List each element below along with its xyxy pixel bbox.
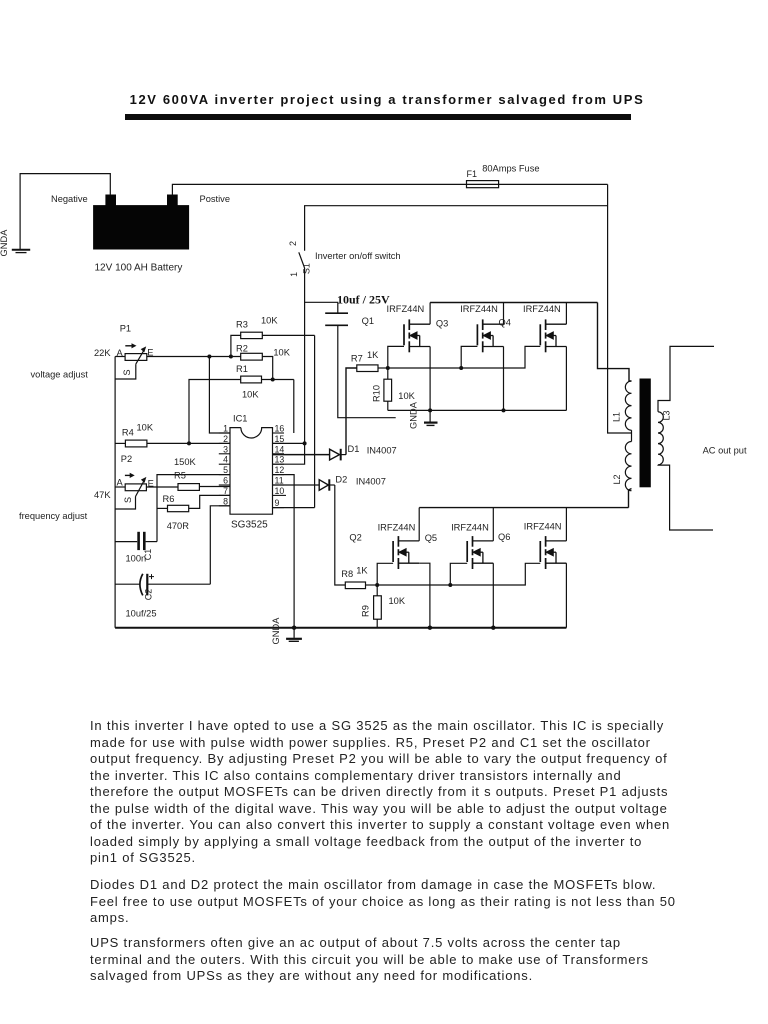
- wire IC pin5 branch: [157, 475, 230, 542]
- svg-text:R5: R5: [174, 471, 186, 481]
- resistor R1: [189, 376, 294, 443]
- battery positive terminal: [167, 195, 178, 206]
- resistor R6: [157, 495, 230, 511]
- wire L3 top to AC output: [658, 346, 714, 411]
- svg-text:R1: R1: [236, 364, 248, 374]
- svg-text:13: 13: [275, 455, 285, 465]
- svg-text:10K: 10K: [389, 596, 406, 606]
- wire C2 to IC pin8: [210, 506, 230, 584]
- transistor Q3: [477, 319, 503, 352]
- svg-text:S: S: [123, 497, 133, 503]
- svg-text:L2: L2: [612, 474, 622, 484]
- svg-text:8: 8: [223, 496, 228, 506]
- wire D1 to R7: [346, 368, 357, 455]
- wire P2 A to left rail: [115, 486, 125, 488]
- svg-text:SG3525: SG3525: [231, 520, 268, 531]
- title underline bar: [125, 114, 631, 120]
- wire Q3 drain: [503, 303, 505, 325]
- title: [3, 92, 768, 107]
- resistor R5: [178, 484, 230, 491]
- svg-text:Q5: Q5: [425, 533, 437, 543]
- svg-text:L1: L1: [612, 412, 622, 422]
- resistor R7: [357, 365, 388, 372]
- svg-text:Q2: Q2: [349, 533, 361, 543]
- wire rail to L2 bottom: [629, 489, 632, 508]
- svg-text:11: 11: [275, 476, 284, 486]
- wire bottom drain rail: [419, 507, 628, 509]
- ground GNDA IC: [286, 628, 302, 642]
- svg-text:Q3: Q3: [436, 319, 448, 329]
- svg-text:10K: 10K: [398, 391, 415, 401]
- svg-text:Q1: Q1: [362, 316, 374, 326]
- svg-text:10uf/25: 10uf/25: [126, 609, 157, 619]
- wire L3 bottom to AC output: [658, 465, 713, 530]
- svg-text:P1: P1: [120, 324, 131, 334]
- preset P2 wiper arrow: [136, 477, 147, 497]
- resistor R10: [384, 368, 392, 410]
- left rail: [114, 357, 116, 628]
- svg-text:47K: 47K: [94, 490, 111, 500]
- svg-text:12V 100 AH Battery: 12V 100 AH Battery: [95, 263, 183, 274]
- svg-text:5: 5: [223, 465, 228, 475]
- svg-text:12: 12: [275, 465, 285, 475]
- wire IC pin15 to supply node: [273, 442, 305, 444]
- svg-text:Inverter on/off switch: Inverter on/off switch: [315, 251, 401, 261]
- svg-text:IRFZ44N: IRFZ44N: [460, 304, 498, 314]
- svg-text:Q4: Q4: [499, 318, 511, 328]
- svg-text:F1: F1: [467, 169, 478, 179]
- battery BT1 body: [93, 205, 189, 249]
- svg-text:R7: R7: [351, 354, 363, 364]
- transistor Q1: [404, 319, 430, 352]
- fuse F1: [467, 181, 499, 188]
- arrow glyph P2: [125, 473, 135, 478]
- resistor R8: [345, 582, 377, 589]
- svg-text:IRFZ44N: IRFZ44N: [523, 304, 561, 314]
- svg-text:80Amps Fuse: 80Amps Fuse: [482, 164, 539, 174]
- wire Q5 source: [492, 563, 494, 628]
- wire Q4 source: [565, 347, 567, 411]
- wire P1 A to left rail: [115, 356, 125, 358]
- svg-text:1K: 1K: [367, 350, 379, 360]
- wire Q1 source: [429, 347, 431, 411]
- wire D2 to R8: [335, 485, 346, 585]
- svg-text:2: 2: [223, 434, 228, 444]
- wire Q2 drain: [418, 508, 420, 541]
- svg-text:R10: R10: [372, 385, 382, 402]
- svg-text:10K: 10K: [273, 348, 290, 358]
- capacitor C2 10uf/25: [115, 574, 210, 596]
- wire R1 to IC pin16: [293, 380, 295, 434]
- transistor Q5: [467, 536, 493, 569]
- preset P1 wiper arrow: [136, 346, 146, 364]
- svg-text:Negative: Negative: [51, 194, 88, 204]
- svg-text:S1: S1: [302, 263, 312, 274]
- battery negative terminal: [105, 195, 116, 206]
- wire Q3 source: [503, 347, 505, 411]
- capacitor C3 10uf/25V plates: [325, 313, 348, 325]
- paragraph 2: [90, 877, 740, 927]
- wire V+ vertical to transformer center tap: [608, 184, 632, 433]
- IC pin underlines right: [273, 433, 287, 508]
- wire node to IC pin1: [209, 357, 230, 434]
- svg-text:R6: R6: [163, 494, 175, 504]
- wire rail to L1 top: [598, 303, 632, 382]
- wire fuse to V+ vertical: [499, 183, 608, 185]
- resistor R9: [374, 585, 382, 628]
- resistor R4: [115, 440, 230, 447]
- wire IC pin9 to R3 branch: [273, 507, 315, 509]
- svg-text:IRFZ44N: IRFZ44N: [451, 523, 489, 533]
- svg-text:frequency adjust: frequency adjust: [19, 511, 88, 521]
- IC pin numbers left 1-8: [223, 424, 228, 507]
- wire IC pin14 to D1: [273, 454, 330, 456]
- svg-text:S: S: [122, 369, 132, 375]
- svg-text:22K: 22K: [94, 348, 111, 358]
- svg-text:14: 14: [275, 444, 285, 454]
- preset P1 body: [125, 354, 147, 361]
- transistor Q4: [540, 319, 566, 352]
- svg-text:R9: R9: [361, 605, 371, 617]
- wire Q5 gate lead: [450, 563, 467, 585]
- ground GNDA mosfets: [424, 410, 438, 425]
- wire Q6 source: [565, 563, 567, 628]
- svg-text:3: 3: [223, 444, 228, 454]
- svg-text:voltage adjust: voltage adjust: [31, 370, 89, 380]
- wire top source rail: [388, 409, 567, 411]
- transformer primary L2: [625, 441, 631, 490]
- svg-text:IRFZ44N: IRFZ44N: [387, 304, 425, 314]
- svg-text:150K: 150K: [174, 457, 197, 467]
- wire IC pin13 to supply node: [273, 443, 305, 464]
- transformer core: [640, 379, 651, 488]
- wire switch node to capacitor C3: [305, 302, 338, 313]
- wire battery negative to ground: [20, 174, 110, 250]
- transistor Q6: [540, 536, 566, 569]
- svg-text:1K: 1K: [356, 566, 368, 576]
- svg-text:Q6: Q6: [498, 532, 510, 542]
- svg-text:470R: 470R: [167, 521, 190, 531]
- wire Q1 gate lead: [388, 346, 404, 368]
- wire Q3 gate lead: [461, 346, 477, 368]
- wire top drain rail: [430, 302, 597, 304]
- paragraph 3: [90, 935, 740, 985]
- IC pin underlines left: [219, 433, 230, 506]
- svg-text:A: A: [117, 478, 124, 488]
- svg-text:R2: R2: [236, 344, 248, 354]
- diode D1 IN4007: [330, 449, 346, 461]
- IC U1 SG3525 body: [230, 428, 273, 515]
- wire battery positive to fuse: [172, 184, 466, 195]
- svg-text:2: 2: [288, 241, 298, 246]
- wire Q4 drain: [565, 303, 567, 325]
- svg-text:IN4007: IN4007: [367, 446, 397, 456]
- diode D2 IN4007: [319, 479, 335, 490]
- transformer secondary L3: [658, 412, 663, 465]
- wire P2 S to left rail: [115, 497, 135, 510]
- ground GNDA battery: [12, 250, 30, 253]
- wire bottom gate bus: [377, 563, 540, 585]
- svg-text:C1: C1: [143, 549, 153, 561]
- svg-text:Postive: Postive: [200, 194, 231, 204]
- transistor Q2: [393, 536, 419, 569]
- transformer primary L1: [625, 381, 631, 430]
- wire IC pin11 to D2: [273, 484, 320, 486]
- svg-text:6: 6: [223, 476, 228, 486]
- wire Q5 drain: [492, 508, 494, 541]
- svg-text:4: 4: [223, 455, 228, 465]
- svg-text:R8: R8: [341, 569, 353, 579]
- wire capacitor C3 bottom stub: [338, 325, 396, 417]
- wire R3 to IC pin9: [314, 335, 316, 507]
- svg-text:GNDA: GNDA: [0, 229, 9, 257]
- svg-text:15: 15: [275, 434, 285, 444]
- resistor R2: [241, 353, 273, 379]
- svg-text:D2: D2: [335, 475, 347, 485]
- wire Q2 gate lead: [377, 563, 393, 585]
- svg-text:16: 16: [275, 424, 285, 434]
- wire Q6 drain: [565, 508, 567, 541]
- paragraph 1: [90, 718, 740, 867]
- svg-text:10K: 10K: [242, 390, 259, 400]
- svg-text:GNDA: GNDA: [271, 617, 281, 645]
- svg-text:IRFZ44N: IRFZ44N: [524, 522, 562, 532]
- svg-text:IRFZ44N: IRFZ44N: [378, 523, 416, 533]
- svg-text:R3: R3: [236, 320, 248, 330]
- resistor R3: [231, 332, 315, 356]
- wire IC pin12 to ground rail: [273, 475, 295, 628]
- svg-text:AC out put: AC out put: [703, 446, 747, 456]
- svg-text:P2: P2: [121, 454, 132, 464]
- svg-text:1: 1: [289, 272, 299, 277]
- svg-text:7: 7: [223, 486, 228, 496]
- svg-text:D1: D1: [348, 444, 360, 454]
- svg-text:10: 10: [275, 486, 285, 496]
- wire L1 L2 junction: [631, 430, 633, 441]
- svg-text:IC1: IC1: [233, 414, 247, 424]
- wire P1 E to node line: [147, 356, 241, 358]
- preset P2 body: [125, 484, 146, 491]
- wire top gate bus: [388, 346, 541, 368]
- wire bottom ground rail: [115, 627, 566, 629]
- svg-text:10uf / 25V: 10uf / 25V: [337, 293, 390, 307]
- wire switch bottom to IC supply node: [304, 268, 306, 443]
- arrow glyph P1: [125, 343, 136, 348]
- wire Q2 source: [419, 563, 430, 628]
- wire Q1 drain: [429, 303, 431, 325]
- svg-text:1: 1: [223, 424, 228, 434]
- svg-text:C2: C2: [144, 589, 154, 601]
- svg-text:L3: L3: [662, 410, 672, 420]
- capacitor C1 100n: [115, 532, 157, 550]
- switch S1 blade: [299, 252, 305, 268]
- IC pin numbers right 16-9: [275, 424, 285, 508]
- svg-text:GNDA: GNDA: [409, 401, 419, 429]
- wire P2 E to R5: [146, 486, 178, 488]
- wire V+ to switch top: [305, 206, 608, 251]
- junction dots: [187, 355, 506, 630]
- svg-text:10K: 10K: [261, 316, 278, 326]
- svg-text:IN4007: IN4007: [356, 477, 386, 487]
- svg-text:R4: R4: [122, 428, 134, 438]
- svg-text:9: 9: [275, 498, 280, 508]
- svg-text:10K: 10K: [137, 423, 154, 433]
- wire P1 S to left rail: [115, 364, 136, 379]
